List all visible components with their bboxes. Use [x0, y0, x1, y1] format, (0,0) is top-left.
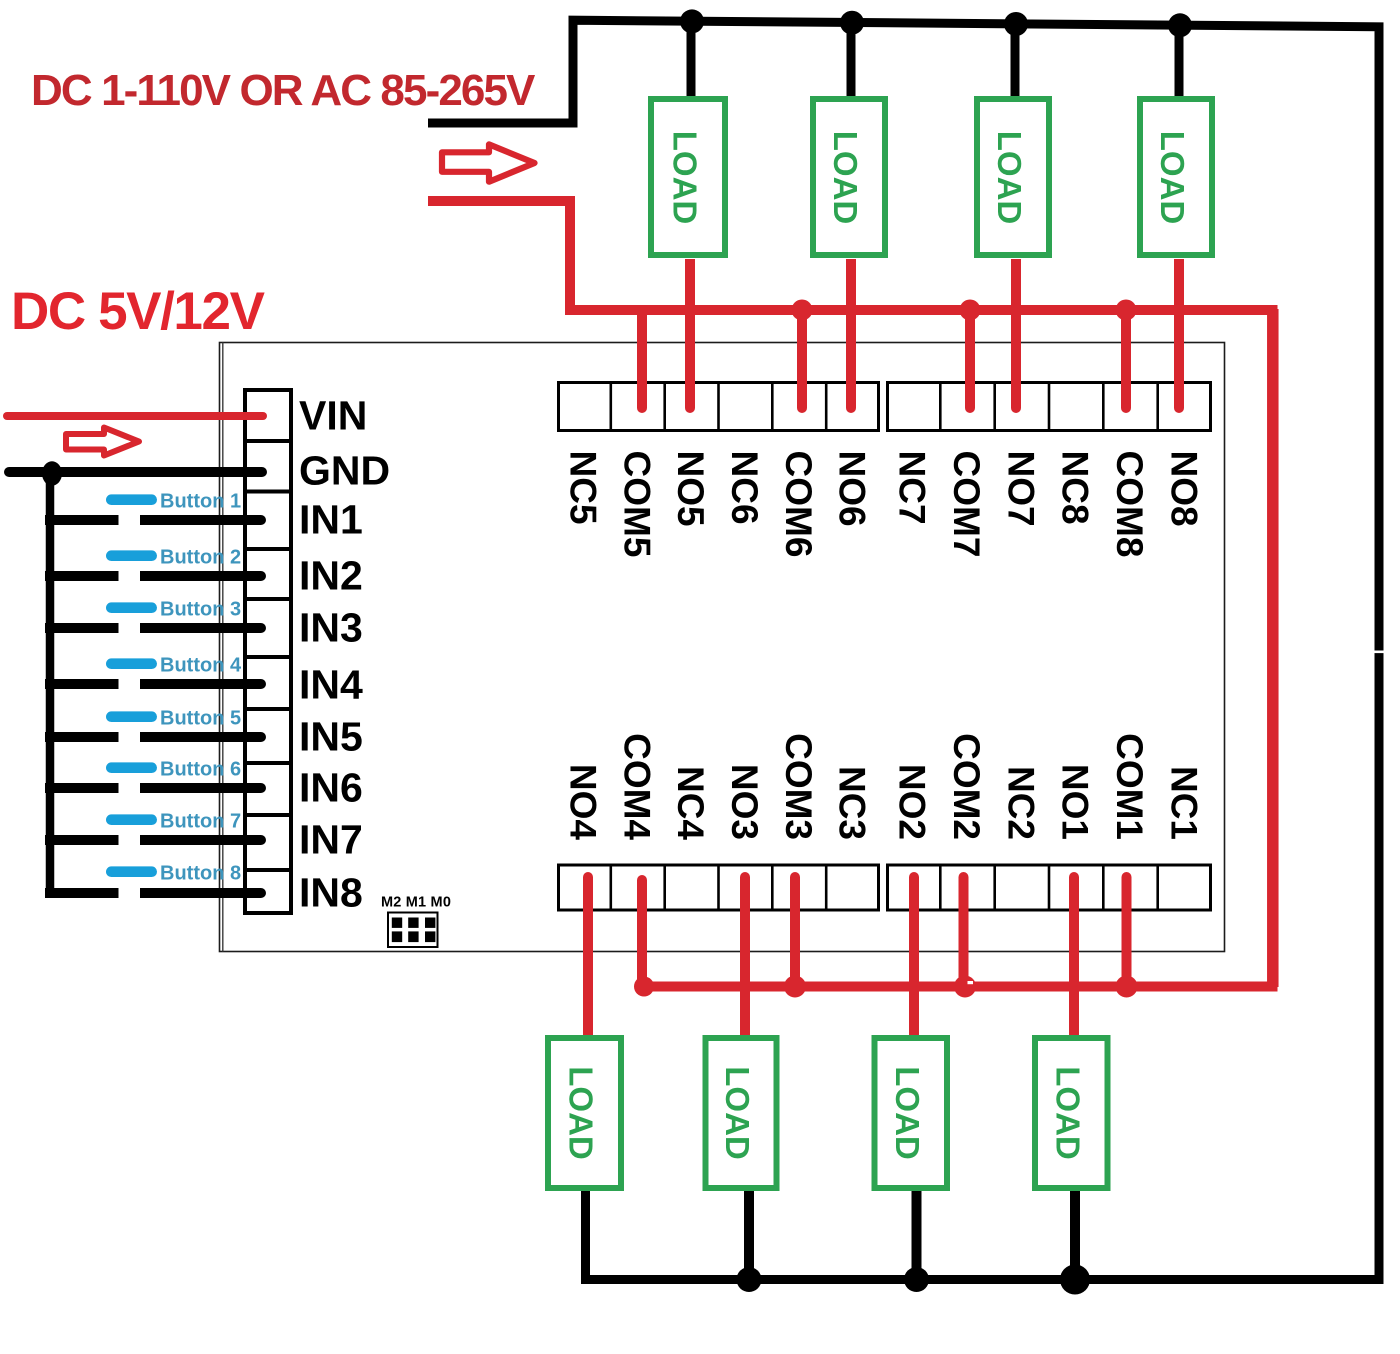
wire: button3 row — [45, 623, 266, 633]
LOAD box 7 — [977, 99, 1049, 255]
junction on GND feed — [42, 461, 62, 485]
svg-text:GND: GND — [299, 448, 390, 494]
arrow: logic feed direction — [66, 428, 139, 456]
svg-text:M2 M1 M0: M2 M1 M0 — [381, 895, 451, 911]
wire: red drop to COM5 — [637, 310, 647, 413]
svg-text:NO8: NO8 — [1163, 451, 1204, 527]
svg-text:LOAD: LOAD — [1154, 131, 1191, 225]
svg-text:DC 1-110V OR AC 85-265V: DC 1-110V OR AC 85-265V — [31, 66, 536, 115]
svg-text:IN4: IN4 — [299, 662, 363, 708]
svg-text:LOAD: LOAD — [827, 131, 864, 225]
wire: button7 row — [45, 835, 266, 845]
wire: GND feed — [9, 467, 262, 477]
wire: COM1 riser to live bus — [1116, 872, 1138, 998]
wire: red drop to COM6 — [792, 300, 813, 414]
wire: LOAD6 lead to NO6 — [846, 259, 856, 413]
wire: red VIN feed — [7, 412, 263, 420]
junction on bottom bus — [904, 1267, 929, 1292]
svg-text:COM5: COM5 — [616, 451, 657, 558]
wire: NO2 to LOAD — [909, 872, 919, 1037]
LOAD box 3 (bottom) — [706, 1038, 777, 1188]
svg-text:Button 5: Button 5 — [160, 708, 241, 730]
wire: LOAD8 lead to NO8 — [1174, 259, 1184, 413]
svg-text:Button 1: Button 1 — [160, 491, 241, 513]
arrow: mains feed direction — [442, 144, 535, 181]
top terminal strip block B (NC7..NO8) — [888, 381, 1211, 432]
wire: black lead LOAD (NO1) to bottom bus — [1070, 1191, 1080, 1280]
button 3 actuator — [106, 602, 157, 613]
svg-text:VIN: VIN — [299, 393, 367, 439]
wire: COM3 riser to live bus — [784, 872, 806, 998]
junction on bottom bus — [737, 1267, 762, 1292]
LOAD box 5 — [651, 99, 725, 255]
svg-text:Button 4: Button 4 — [160, 655, 242, 677]
svg-text:NO5: NO5 — [670, 451, 711, 527]
wire: LOAD7 lead to NO7 — [1011, 259, 1021, 413]
wire: black lead LOAD (NO3) to bottom bus — [744, 1191, 754, 1280]
svg-text:NO7: NO7 — [1000, 451, 1041, 527]
button 8 actuator — [106, 866, 157, 877]
svg-text:COM8: COM8 — [1109, 451, 1150, 558]
wire: COM2 riser to live bus — [954, 872, 976, 998]
wire: button5 row — [45, 732, 266, 742]
svg-text:IN6: IN6 — [299, 765, 363, 811]
wire: black drop to LOAD6 — [847, 23, 856, 101]
svg-text:COM1: COM1 — [1109, 733, 1150, 840]
svg-text:NO2: NO2 — [892, 764, 933, 840]
svg-text:COM3: COM3 — [778, 733, 819, 840]
svg-text:NC1: NC1 — [1163, 766, 1204, 840]
wire: button common bus — [46, 472, 55, 898]
svg-text:COM6: COM6 — [778, 451, 819, 558]
svg-text:IN1: IN1 — [299, 497, 363, 543]
wire: black lead LOAD (NO2) to bottom bus — [912, 1191, 922, 1280]
LOAD box 2 (bottom) — [875, 1038, 948, 1188]
LOAD box 1 (bottom) — [1035, 1038, 1108, 1188]
junction on top bus — [1168, 13, 1192, 37]
mode jumper block — [388, 913, 438, 948]
svg-text:LOAD: LOAD — [667, 131, 704, 225]
bottom terminal strip block B (NO2..NC1) — [888, 864, 1211, 912]
svg-text:NC5: NC5 — [562, 451, 603, 525]
svg-text:NC6: NC6 — [724, 451, 765, 525]
svg-text:IN3: IN3 — [299, 605, 363, 651]
button 7 actuator — [106, 814, 157, 825]
input pin header column (VIN..IN8) — [243, 390, 293, 913]
wire: button4 row — [45, 679, 266, 689]
svg-text:IN7: IN7 — [299, 817, 363, 863]
wire: red drop to COM7 — [960, 300, 981, 414]
svg-text:LOAD: LOAD — [563, 1066, 600, 1160]
button 5 actuator — [106, 711, 157, 722]
wire: NO3 to LOAD — [740, 872, 750, 1037]
svg-text:NC2: NC2 — [1000, 766, 1041, 840]
svg-text:NO4: NO4 — [562, 764, 603, 841]
gap artifact in right vertical wire — [1371, 651, 1387, 654]
svg-text:LOAD: LOAD — [889, 1066, 926, 1160]
wire: black drop to LOAD8 — [1175, 25, 1184, 100]
button 1 actuator — [106, 494, 157, 505]
wire: NO4 to LOAD — [583, 872, 593, 1037]
LOAD box 4 (bottom) — [548, 1038, 621, 1188]
junction on top bus — [1004, 12, 1028, 36]
wire: button6 row — [45, 783, 266, 793]
svg-text:IN8: IN8 — [299, 870, 363, 916]
LOAD box 8 — [1140, 99, 1212, 255]
svg-text:LOAD: LOAD — [719, 1066, 756, 1160]
svg-text:COM7: COM7 — [946, 451, 987, 558]
wire: button8 row — [45, 888, 266, 898]
svg-text:COM4: COM4 — [616, 733, 657, 840]
svg-text:NO3: NO3 — [724, 764, 765, 840]
junction on top bus — [680, 9, 704, 33]
junction at COM4 corner — [634, 977, 654, 997]
svg-text:NC3: NC3 — [832, 766, 873, 840]
junction on top bus — [840, 11, 864, 35]
button 4 actuator — [106, 658, 157, 669]
relay module board outline — [220, 343, 1225, 952]
button 6 actuator — [106, 762, 157, 773]
wire: red mains feed + live bus + right drop + bottom live bus + COM4 riser — [428, 201, 1273, 987]
wire: LOAD5 lead to NO5 — [685, 259, 695, 413]
svg-text:NC4: NC4 — [670, 766, 711, 840]
wire: NO1 to LOAD — [1069, 872, 1079, 1037]
svg-text:DC 5V/12V: DC 5V/12V — [11, 282, 265, 341]
svg-text:NC7: NC7 — [892, 451, 933, 525]
svg-text:NO1: NO1 — [1055, 764, 1096, 840]
svg-text:NC8: NC8 — [1055, 451, 1096, 525]
wire: mains black feed + top bus + right drop + bottom bus + load1 lead — [428, 20, 1379, 1279]
top terminal strip block A (NC5..NO6) — [559, 381, 879, 432]
junction on bottom bus — [1060, 1265, 1090, 1295]
bottom terminal strip block A (NO4..NC3) — [559, 864, 879, 912]
wire: black drop to LOAD5 — [687, 21, 696, 100]
LOAD box 6 — [813, 99, 885, 255]
svg-text:Button 6: Button 6 — [160, 759, 241, 781]
svg-text:COM2: COM2 — [946, 733, 987, 840]
wire: button1 row — [45, 515, 266, 525]
svg-text:IN5: IN5 — [299, 714, 363, 760]
svg-text:LOAD: LOAD — [1050, 1066, 1087, 1160]
button 2 actuator — [106, 550, 157, 561]
svg-text:IN2: IN2 — [299, 553, 363, 599]
svg-text:Button 3: Button 3 — [160, 599, 241, 621]
svg-text:NO6: NO6 — [832, 451, 873, 527]
svg-text:Button 7: Button 7 — [160, 811, 241, 833]
svg-text:Button 8: Button 8 — [160, 863, 241, 885]
wire: button2 row — [45, 571, 266, 581]
wire: black drop to LOAD7 — [1011, 24, 1020, 100]
svg-text:Button 2: Button 2 — [160, 547, 241, 569]
svg-text:LOAD: LOAD — [991, 131, 1028, 225]
wire: red drop to COM8 — [1116, 300, 1137, 414]
